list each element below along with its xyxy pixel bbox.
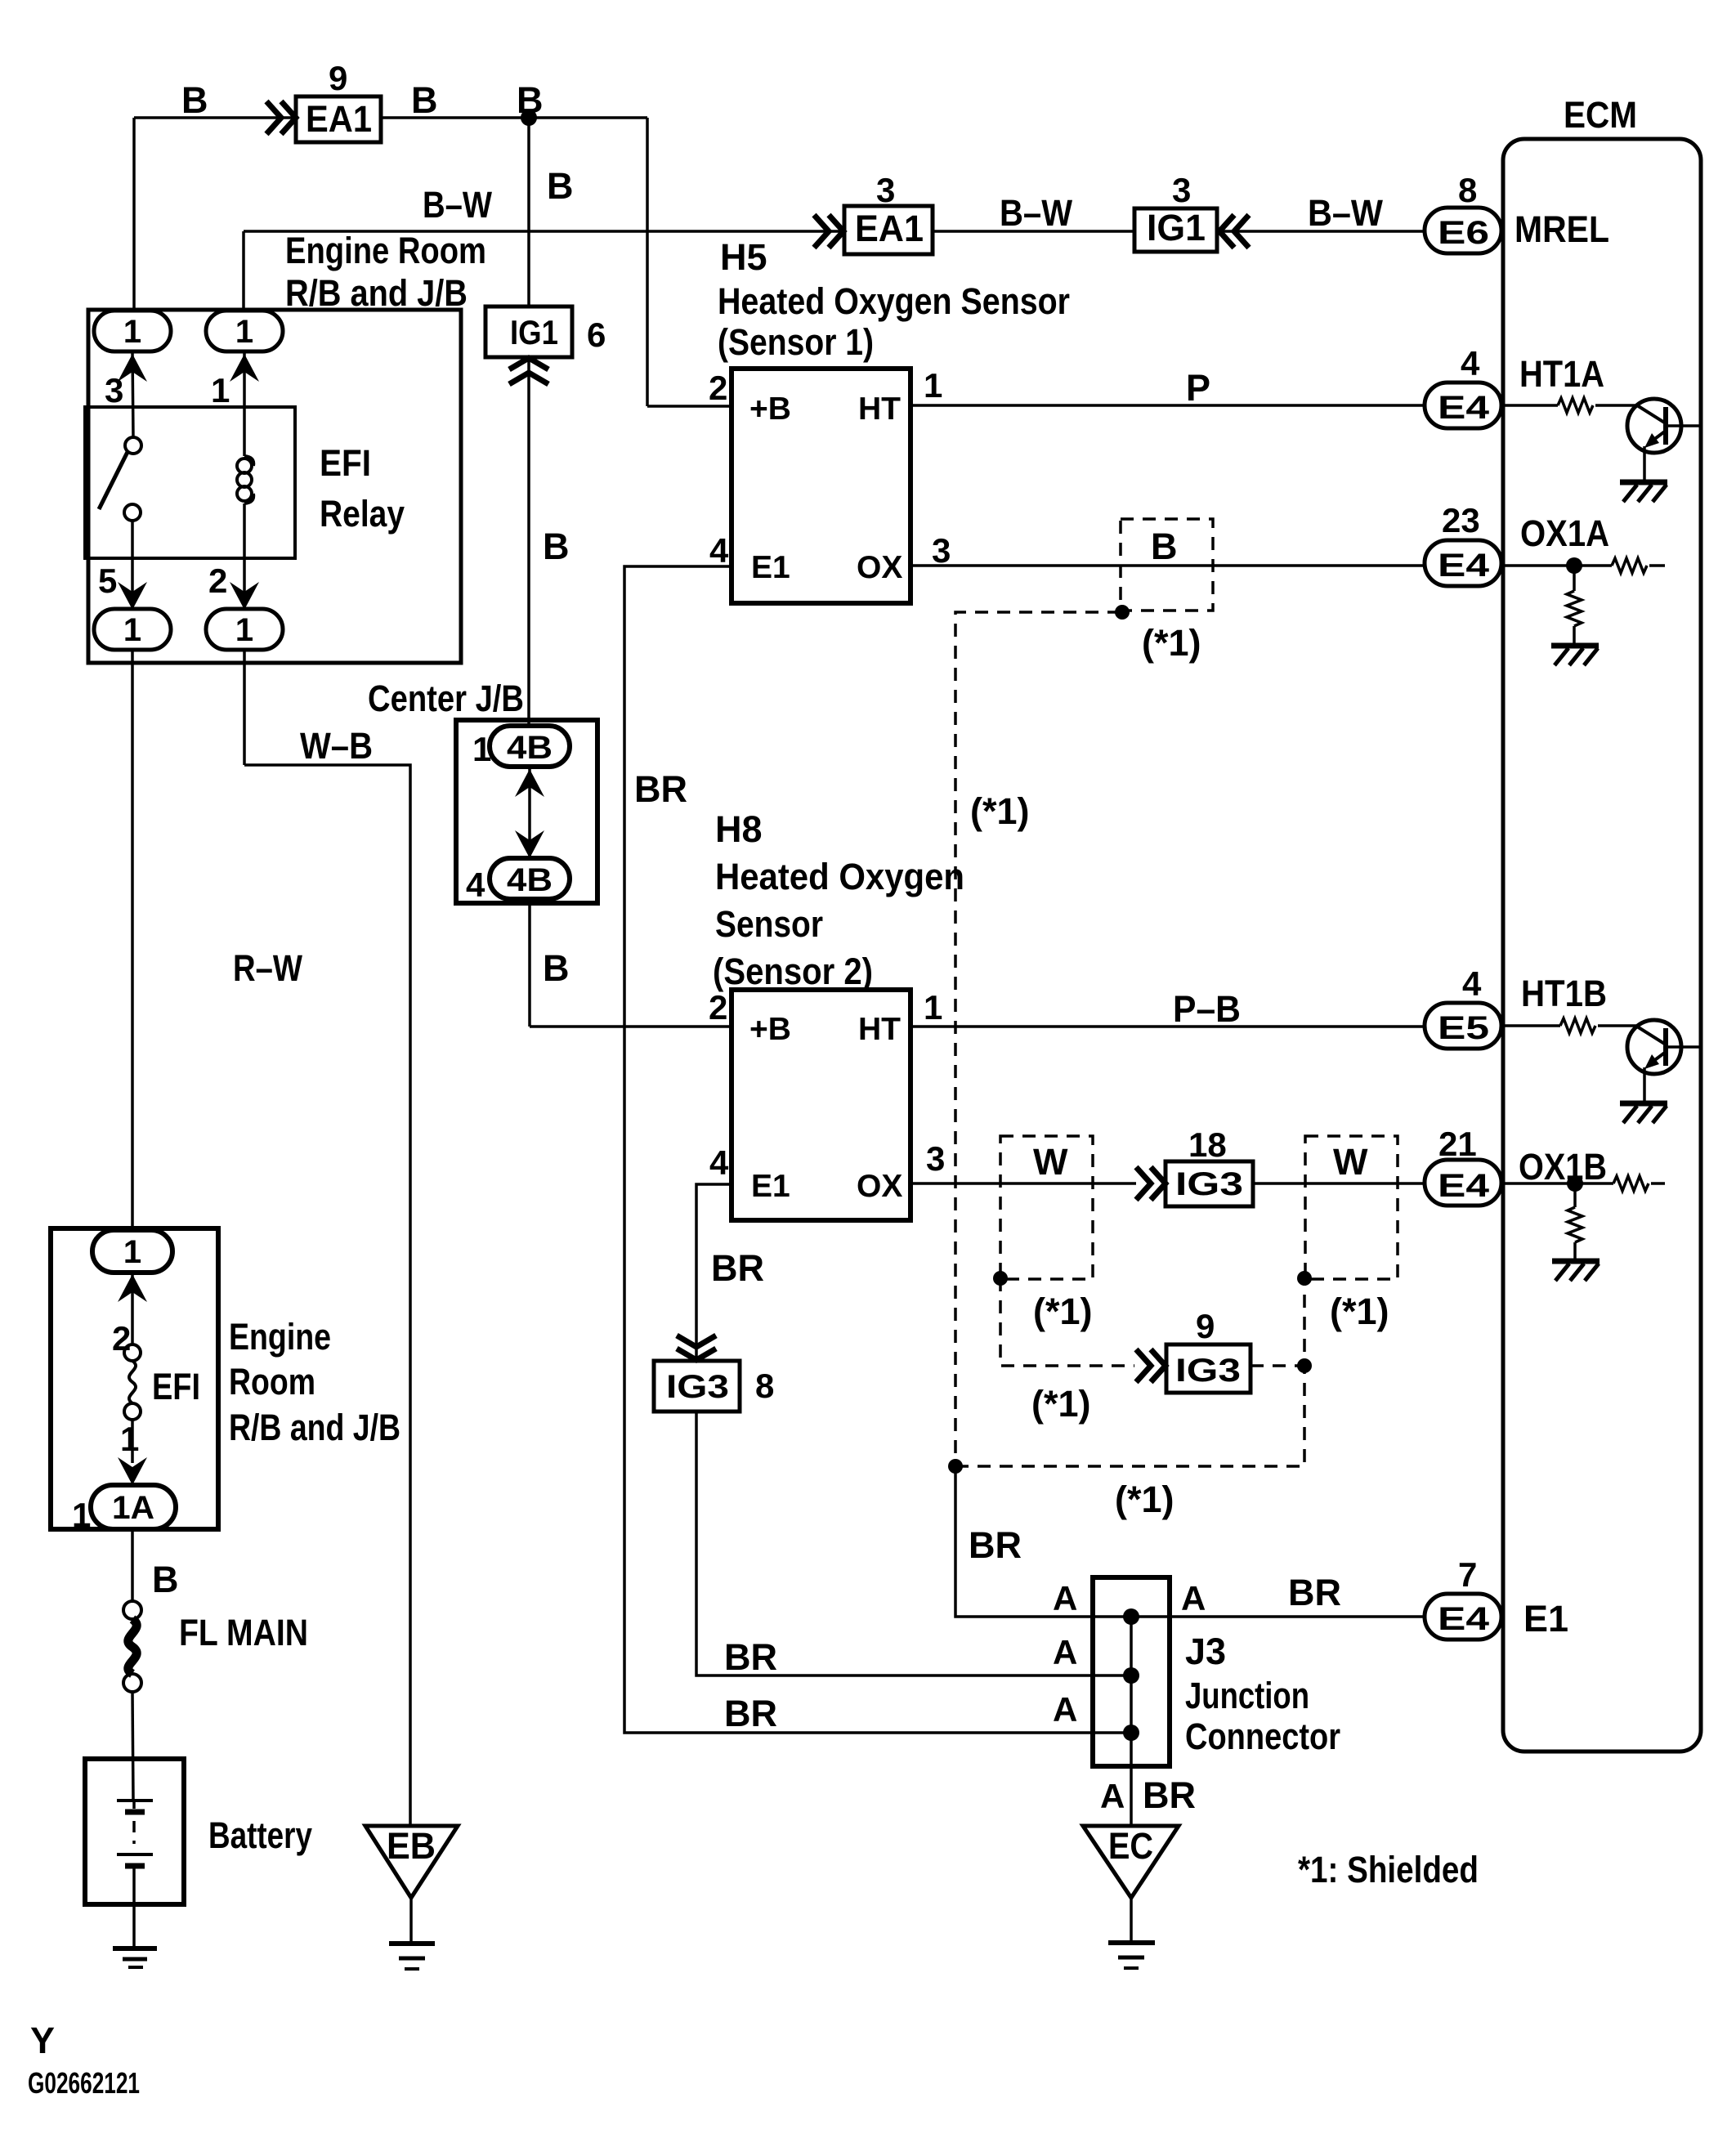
svg-text:Y: Y (30, 2020, 55, 2061)
svg-text:1: 1 (123, 1234, 141, 1270)
svg-text:ECM: ECM (1564, 94, 1637, 136)
svg-text:4: 4 (466, 866, 485, 904)
svg-text:E1: E1 (1523, 1598, 1568, 1640)
svg-text:1A: 1A (112, 1490, 154, 1526)
svg-text:8: 8 (755, 1367, 774, 1405)
svg-text:BR: BR (1143, 1774, 1196, 1816)
svg-text:HT1B: HT1B (1521, 973, 1607, 1014)
svg-text:R–W: R–W (233, 947, 302, 989)
svg-text:3: 3 (932, 531, 951, 570)
svg-text:A: A (1053, 1690, 1077, 1729)
svg-text:OX1A: OX1A (1520, 512, 1609, 554)
svg-text:W: W (1333, 1141, 1368, 1183)
svg-text:6: 6 (587, 315, 606, 354)
svg-text:B: B (1151, 526, 1178, 567)
svg-text:EC: EC (1108, 1825, 1153, 1867)
svg-text:W–B: W–B (300, 725, 373, 767)
svg-text:18: 18 (1188, 1125, 1227, 1164)
svg-text:1: 1 (72, 1496, 91, 1534)
svg-text:A: A (1181, 1579, 1206, 1617)
svg-text:23: 23 (1442, 501, 1480, 539)
svg-text:4: 4 (709, 531, 729, 570)
svg-text:+B: +B (749, 1012, 791, 1047)
svg-text:Room: Room (229, 1361, 315, 1403)
svg-text:W: W (1033, 1141, 1068, 1183)
svg-text:(*1): (*1) (1033, 1291, 1093, 1332)
svg-text:1: 1 (472, 730, 491, 768)
svg-text:B–W: B–W (1308, 192, 1383, 234)
svg-text:Sensor: Sensor (715, 903, 823, 945)
svg-text:4: 4 (1462, 964, 1482, 1003)
svg-text:Connector: Connector (1185, 1716, 1340, 1757)
svg-text:MREL: MREL (1515, 208, 1609, 250)
svg-text:4B: 4B (507, 730, 553, 766)
svg-text:Junction: Junction (1185, 1675, 1309, 1716)
svg-text:(*1): (*1) (1115, 1479, 1174, 1520)
svg-text:EA1: EA1 (306, 98, 372, 140)
svg-text:P–B: P–B (1173, 988, 1241, 1030)
svg-text:R/B and J/B: R/B and J/B (285, 272, 468, 314)
svg-text:2: 2 (709, 988, 727, 1027)
svg-text:4B: 4B (507, 862, 553, 898)
svg-text:1: 1 (924, 366, 942, 405)
svg-text:HT: HT (858, 1012, 901, 1047)
svg-text:E4: E4 (1438, 390, 1490, 426)
svg-text:E4: E4 (1438, 1168, 1490, 1204)
svg-text:(Sensor 2): (Sensor 2) (713, 951, 873, 992)
svg-text:IG3: IG3 (1175, 1166, 1243, 1202)
svg-text:4: 4 (1461, 344, 1480, 383)
svg-text:EFI: EFI (152, 1366, 200, 1407)
svg-text:BR: BR (724, 1693, 777, 1734)
svg-text:2: 2 (208, 561, 227, 600)
svg-text:9: 9 (1196, 1307, 1215, 1345)
svg-text:EFI: EFI (320, 442, 371, 484)
svg-text:(*1): (*1) (970, 790, 1030, 832)
svg-text:HT1A: HT1A (1519, 353, 1604, 395)
svg-text:2: 2 (709, 369, 727, 407)
svg-text:E5: E5 (1438, 1010, 1489, 1046)
svg-text:HT: HT (858, 391, 901, 427)
svg-text:1: 1 (120, 1420, 139, 1458)
svg-text:*1: Shielded: *1: Shielded (1298, 1849, 1479, 1890)
svg-text:21: 21 (1438, 1125, 1477, 1163)
svg-text:Battery: Battery (208, 1814, 312, 1856)
svg-text:E4: E4 (1438, 1601, 1490, 1637)
svg-text:BR: BR (969, 1524, 1022, 1566)
svg-text:E1: E1 (751, 550, 790, 585)
svg-text:(*1): (*1) (1142, 622, 1201, 664)
svg-text:G02662121: G02662121 (28, 2066, 140, 2100)
svg-text:OX: OX (857, 550, 902, 585)
svg-text:3: 3 (1172, 171, 1191, 209)
svg-text:E6: E6 (1438, 215, 1489, 251)
svg-text:+B: +B (749, 391, 791, 427)
svg-text:Center J/B: Center J/B (368, 678, 524, 719)
svg-text:J3: J3 (1185, 1631, 1226, 1672)
svg-text:8: 8 (1458, 171, 1477, 209)
svg-text:Engine Room: Engine Room (285, 230, 486, 271)
svg-text:B: B (152, 1559, 179, 1600)
svg-text:H5: H5 (720, 236, 767, 278)
svg-text:R/B and J/B: R/B and J/B (229, 1407, 400, 1448)
svg-text:FL MAIN: FL MAIN (179, 1612, 308, 1653)
svg-text:1: 1 (235, 314, 253, 350)
svg-text:B: B (547, 165, 574, 207)
svg-text:OX1B: OX1B (1519, 1146, 1607, 1188)
svg-text:B: B (543, 947, 570, 989)
svg-text:EB: EB (387, 1825, 436, 1867)
svg-text:OX: OX (857, 1169, 902, 1204)
svg-text:IG3: IG3 (666, 1369, 729, 1405)
svg-text:BR: BR (724, 1636, 777, 1678)
svg-text:B: B (181, 79, 208, 121)
svg-text:B–W: B–W (1000, 192, 1072, 234)
svg-text:B: B (517, 79, 544, 121)
svg-text:(*1): (*1) (1031, 1383, 1091, 1425)
svg-text:H8: H8 (715, 808, 763, 850)
svg-text:3: 3 (926, 1139, 945, 1178)
svg-text:B–W: B–W (423, 184, 492, 226)
svg-text:A: A (1100, 1777, 1125, 1815)
svg-text:1: 1 (211, 371, 230, 409)
svg-text:1: 1 (123, 612, 141, 648)
svg-text:Relay: Relay (320, 493, 405, 535)
svg-text:IG1: IG1 (510, 313, 558, 351)
svg-text:A: A (1053, 1579, 1077, 1617)
svg-text:B: B (543, 526, 570, 567)
svg-text:E4: E4 (1438, 548, 1490, 584)
svg-text:3: 3 (105, 371, 123, 409)
svg-text:P: P (1186, 367, 1210, 409)
svg-text:5: 5 (98, 561, 117, 600)
svg-text:(Sensor 1): (Sensor 1) (718, 321, 874, 363)
svg-text:E1: E1 (751, 1169, 790, 1204)
svg-text:1: 1 (924, 988, 942, 1027)
svg-text:2: 2 (112, 1319, 131, 1358)
svg-text:IG1: IG1 (1147, 207, 1206, 248)
svg-text:IG3: IG3 (1175, 1353, 1241, 1389)
svg-text:9: 9 (329, 59, 347, 97)
svg-text:3: 3 (876, 171, 895, 209)
svg-text:1: 1 (235, 612, 253, 648)
svg-text:4: 4 (709, 1143, 729, 1182)
svg-text:BR: BR (634, 768, 687, 810)
svg-text:Heated Oxygen: Heated Oxygen (715, 856, 964, 897)
svg-text:BR: BR (1288, 1572, 1341, 1613)
svg-text:A: A (1053, 1633, 1077, 1671)
svg-text:(*1): (*1) (1330, 1291, 1389, 1332)
svg-text:B: B (411, 79, 438, 121)
svg-text:Engine: Engine (229, 1316, 331, 1358)
svg-text:EA1: EA1 (855, 208, 924, 249)
svg-text:BR: BR (711, 1247, 764, 1289)
svg-text:7: 7 (1458, 1555, 1477, 1594)
svg-text:Heated Oxygen Sensor: Heated Oxygen Sensor (718, 280, 1070, 322)
svg-text:1: 1 (123, 314, 141, 350)
